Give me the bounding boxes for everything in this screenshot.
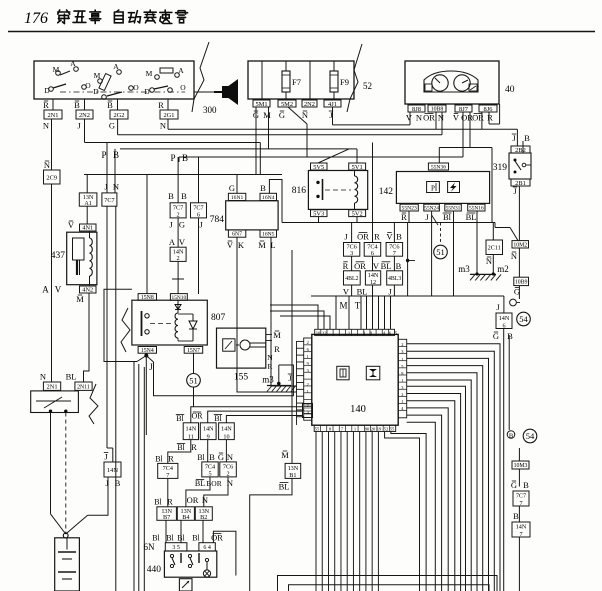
svg-text:319: 319 — [493, 163, 508, 173]
svg-text:BL: BL — [357, 287, 368, 297]
svg-text:4BL3: 4BL3 — [388, 276, 401, 282]
svg-text:B: B — [513, 511, 519, 521]
connector 7C7 left — [102, 193, 117, 206]
svg-text:M: M — [273, 330, 281, 340]
connector 4J1 — [324, 100, 341, 108]
svg-text:10: 10 — [316, 330, 321, 335]
svg-text:10M3: 10M3 — [514, 463, 528, 469]
svg-text:M: M — [263, 110, 271, 120]
svg-text:J: J — [149, 362, 153, 372]
labels over 13N group — [154, 495, 208, 507]
wires M T drop — [349, 296, 361, 329]
label P B pair 1 — [101, 150, 119, 160]
svg-text:142: 142 — [379, 187, 394, 197]
label B over 2G2 — [107, 100, 113, 110]
svg-text:437: 437 — [51, 251, 66, 261]
connector 15N10 — [170, 294, 187, 301]
svg-text:1: 1 — [307, 389, 309, 394]
svg-text:90: 90 — [365, 426, 370, 431]
svg-text:7: 7 — [519, 531, 522, 538]
svg-text:D: D — [93, 87, 99, 96]
ground m3 with J — [262, 365, 296, 392]
svg-text:R: R — [274, 344, 280, 354]
header rule — [8, 31, 595, 33]
svg-text:4N2: 4N2 — [82, 287, 93, 294]
connector 13N-B2 — [195, 507, 212, 521]
fuse F7 — [282, 71, 301, 92]
label R over 2N1 — [43, 100, 49, 110]
ECU 140 box with pin strips — [304, 329, 407, 431]
connector 13N-B7 — [157, 507, 177, 521]
svg-text:12: 12 — [322, 330, 327, 335]
break mark lower left — [89, 384, 98, 424]
svg-text:1: 1 — [401, 399, 403, 404]
labels over stack row1 — [344, 232, 402, 242]
svg-text:G: G — [493, 331, 499, 341]
svg-text:G: G — [279, 110, 285, 120]
connector 7C6-3 — [344, 243, 360, 258]
wire 14N-6 drop — [503, 329, 505, 591]
svg-text:7: 7 — [519, 500, 522, 507]
svg-text:5V5: 5V5 — [313, 164, 324, 171]
wire OR loop to 440 — [213, 531, 236, 575]
connector 5M2 — [278, 100, 296, 108]
svg-text:R: R — [158, 100, 164, 110]
wire 10M2 chain — [518, 248, 520, 277]
circled number 51 left — [187, 374, 201, 388]
svg-text:B: B — [396, 232, 402, 242]
label BL under 13N-B1 — [279, 482, 290, 492]
wire feeds stack row1 — [352, 143, 395, 243]
wire 15N4 junction Y — [137, 353, 154, 435]
wire 13N-B1 drop — [250, 478, 292, 591]
svg-text:B: B — [113, 150, 119, 160]
wire 300 to diagnostic plug — [194, 91, 221, 93]
wire stub 2G2 — [117, 99, 119, 110]
connector 7C7-6 — [191, 203, 207, 219]
svg-text:N: N — [438, 113, 444, 123]
svg-text:10M2: 10M2 — [513, 242, 527, 248]
switch unit 440 lamp — [203, 570, 210, 577]
wire 15N8 riser — [146, 175, 148, 294]
svg-text:2B1: 2B1 — [515, 180, 526, 187]
svg-text:D: D — [144, 87, 150, 96]
labels over 7C4-7 — [155, 454, 174, 464]
svg-text:B: B — [74, 100, 80, 110]
svg-text:Bl: Bl — [192, 534, 200, 543]
solenoid 437 plunger — [73, 238, 85, 275]
battery — [55, 538, 80, 591]
connector 7C4-7 — [158, 463, 178, 479]
label J under 2N2 — [77, 121, 81, 131]
svg-text:7: 7 — [393, 250, 396, 257]
svg-text:155: 155 — [234, 373, 249, 383]
labels A V over 14N-2 — [169, 237, 186, 247]
connector 2N2 of 52 — [302, 100, 317, 108]
lamp symbol B right — [507, 431, 515, 440]
svg-text:V: V — [55, 285, 62, 295]
connector 2N11 lower — [75, 382, 92, 390]
connector 2B2 — [511, 146, 530, 154]
wire 55N23 drop — [408, 211, 410, 223]
svg-text:7C7: 7C7 — [193, 205, 203, 212]
svg-text:2C9: 2C9 — [46, 174, 57, 181]
svg-text:N: N — [486, 256, 492, 266]
svg-text:OR: OR — [191, 412, 203, 421]
svg-text:R: R — [168, 454, 174, 464]
svg-text:B2: B2 — [200, 514, 207, 521]
connector 4BL3 — [387, 271, 403, 285]
connector 14N-7 — [512, 522, 530, 538]
label J under 15N4 — [149, 362, 153, 372]
svg-text:55N23: 55N23 — [402, 206, 417, 212]
circled number 51 right — [434, 245, 448, 259]
svg-text:O: O — [180, 83, 186, 92]
svg-text:6N7: 6N7 — [232, 232, 242, 238]
connector 2N2 — [76, 110, 93, 119]
wire bus H (main horizontal) — [282, 223, 510, 228]
connector 10M2 — [511, 241, 529, 261]
wire dashed to circled51 — [440, 223, 442, 244]
svg-text:V: V — [227, 240, 234, 250]
wire 5M2 diagonal — [288, 107, 307, 157]
svg-text:807: 807 — [211, 313, 226, 323]
connector 13N-B4 — [177, 507, 194, 521]
svg-text:6: 6 — [197, 212, 200, 219]
wire 807 left loop — [104, 289, 137, 361]
svg-text:O: O — [85, 81, 91, 90]
svg-text:V: V — [343, 287, 350, 297]
lamp symbol right top — [510, 299, 520, 306]
svg-text:OR: OR — [423, 113, 435, 123]
wire 140 bottom bend a — [385, 432, 420, 591]
fuse box 52 outline — [248, 61, 354, 99]
wire 10M2 diagonal — [510, 228, 518, 241]
svg-text:14N: 14N — [186, 425, 197, 432]
wire dashed to battery — [65, 413, 67, 535]
connector 14N-12 — [365, 271, 380, 286]
svg-text:7C6: 7C6 — [223, 464, 233, 471]
svg-text:Bl: Bl — [443, 212, 452, 222]
svg-text:A: A — [178, 66, 184, 75]
svg-text:N: N — [302, 110, 308, 120]
connector 7C6-7 — [386, 243, 403, 258]
wire 7C6-2 drop — [204, 477, 228, 507]
svg-text:m2: m2 — [497, 264, 509, 274]
svg-text:55N36: 55N36 — [431, 165, 446, 171]
svg-text:F9: F9 — [340, 77, 349, 87]
break mark at 300 — [192, 42, 217, 115]
relay 807 contact — [142, 311, 172, 336]
svg-text:5V3: 5V3 — [313, 211, 324, 218]
wire stub 2N1 — [52, 99, 54, 110]
connector 4N1 — [80, 224, 97, 232]
svg-text:B: B — [523, 480, 529, 490]
wire triple h2 — [208, 411, 303, 423]
svg-text:M: M — [258, 240, 266, 250]
junction dots lower switch — [49, 410, 68, 413]
wire bus E — [120, 107, 349, 163]
svg-text:B: B — [209, 452, 215, 462]
labels A V left — [42, 285, 62, 295]
svg-text:2C11: 2C11 — [488, 244, 501, 251]
svg-text:V: V — [453, 113, 460, 123]
switch unit 440 connector strip — [165, 543, 215, 551]
wires stack mid — [352, 256, 395, 271]
svg-text:52: 52 — [363, 81, 372, 91]
svg-text:O: O — [133, 83, 139, 92]
svg-text:6: 6 — [371, 250, 374, 257]
labels J N over 7C7 — [104, 182, 119, 192]
svg-text:14N: 14N — [499, 315, 510, 322]
svg-text:7C4: 7C4 — [163, 465, 173, 472]
connector 2C11 — [486, 240, 503, 266]
wire battery diagonals — [51, 514, 88, 538]
connector 5V3 — [311, 210, 328, 218]
svg-text:16N1: 16N1 — [231, 195, 244, 201]
svg-text:B: B — [260, 183, 266, 193]
svg-text:15N4: 15N4 — [141, 348, 154, 354]
svg-text:55: 55 — [390, 426, 395, 431]
wire 14N-10 drop — [225, 440, 227, 462]
connector 7C4-6 — [364, 243, 381, 258]
labels G B under 14N-6 — [493, 331, 513, 341]
svg-text:2: 2 — [401, 392, 403, 397]
wires left feeds to 140 top — [270, 305, 330, 329]
svg-text:M: M — [94, 71, 101, 80]
connector 14N lower-left — [104, 462, 121, 477]
wire 55N16 drop to ground — [476, 211, 478, 274]
wire 16N5 drop — [271, 237, 297, 386]
wire 55N24 drop — [432, 211, 438, 296]
svg-text:40: 40 — [505, 85, 515, 95]
relay 807 box — [132, 300, 226, 345]
svg-text:Bl: Bl — [177, 443, 185, 452]
svg-text:N: N — [113, 182, 119, 192]
svg-text:G: G — [511, 480, 517, 490]
labels under 784 — [227, 240, 276, 250]
wire stub 2G1 — [167, 99, 169, 110]
svg-text:14N: 14N — [516, 524, 527, 531]
wire bus G long — [84, 174, 282, 176]
svg-text:2: 2 — [307, 340, 309, 345]
svg-text:16N5: 16N5 — [262, 232, 275, 238]
svg-text:1: 1 — [307, 354, 309, 359]
connector 2G1 — [160, 110, 178, 119]
pin numbers 140 top — [316, 330, 398, 335]
wire 5V3 drop — [318, 217, 320, 223]
control unit 142 box — [379, 172, 490, 204]
svg-text:440: 440 — [147, 565, 162, 575]
sensor 155 box — [217, 328, 266, 382]
svg-text:4N1: 4N1 — [82, 225, 93, 232]
wire 15N10 chain feed — [177, 157, 179, 203]
svg-text:A: A — [113, 62, 119, 71]
svg-text:G: G — [229, 183, 235, 193]
wire bus B — [168, 112, 517, 146]
relay 816 contact — [316, 179, 351, 200]
svg-text:6 4: 6 4 — [203, 545, 211, 551]
label P B pair 2 — [170, 153, 188, 163]
svg-text:V: V — [373, 261, 380, 271]
circled number 54 bottom — [523, 429, 537, 443]
svg-text:15N7: 15N7 — [187, 348, 200, 354]
connector 6N7 — [228, 230, 245, 238]
svg-text:B: B — [396, 261, 402, 271]
svg-text:BL: BL — [195, 479, 205, 488]
wire 13NA1 riser — [86, 175, 88, 193]
wire 14N-2 drop with tick — [172, 261, 184, 293]
svg-text:14N: 14N — [107, 467, 118, 474]
label N under 2G1 — [160, 121, 166, 131]
svg-text:2: 2 — [177, 255, 180, 262]
svg-text:14N: 14N — [203, 425, 214, 432]
label M under 4N2 — [76, 294, 84, 304]
svg-text:BL: BL — [381, 261, 392, 271]
labels J B under 14N lower-left — [105, 478, 120, 488]
chapter title 第五章 自动变速器 (hand strokes) — [58, 10, 188, 24]
svg-text:Bl: Bl — [166, 534, 174, 543]
svg-text:2N1: 2N1 — [47, 112, 58, 119]
svg-text:B: B — [168, 191, 174, 201]
diagnostic plug icon (black) — [214, 79, 238, 105]
wire 4N1 feed — [86, 206, 88, 224]
connector 2G2 — [110, 110, 128, 119]
break mark left of 807 — [121, 308, 130, 352]
svg-text:54: 54 — [526, 431, 535, 441]
label B over 2N2 — [74, 100, 80, 110]
wire 5V1 riser — [349, 149, 357, 163]
wire J long drop — [107, 206, 113, 462]
wires 140 bottom drops — [316, 432, 378, 591]
svg-text:7C7: 7C7 — [173, 205, 183, 212]
svg-text:7: 7 — [166, 472, 169, 479]
wire under 51 left — [193, 387, 195, 407]
wire 14N-11 drop — [168, 440, 191, 464]
component 300 selector switch box — [34, 59, 194, 99]
relay 807 diode top — [175, 305, 181, 310]
wire triple h1 — [191, 407, 303, 423]
label N under 2N1 — [43, 121, 49, 131]
svg-text:P: P — [101, 150, 106, 160]
wire 5V2 drop — [356, 217, 358, 223]
svg-text:B: B — [181, 191, 187, 201]
connector 55N24 — [424, 204, 440, 211]
wire 6N7 drop — [237, 237, 297, 392]
wire 16N1 riser — [236, 175, 238, 194]
svg-text:5M1: 5M1 — [255, 101, 267, 108]
svg-text:A: A — [42, 285, 49, 295]
icon gear selector in 142 — [427, 182, 440, 193]
wire 7C4-5 drop — [186, 477, 210, 507]
wire 7C7-7 drop — [518, 506, 520, 522]
svg-text:N: N — [43, 121, 49, 131]
svg-text:7C7: 7C7 — [516, 493, 526, 500]
svg-text:N: N — [227, 452, 233, 462]
connector 13N A1 — [79, 193, 97, 207]
svg-text:B: B — [507, 331, 513, 341]
connector 10B8 — [428, 105, 446, 113]
label J over 14N-6 — [496, 302, 500, 312]
wire fan from 140 right pins — [407, 344, 500, 591]
relay 816 box — [292, 171, 368, 210]
wire 7C7-2 drop — [177, 218, 179, 247]
svg-text:2N2: 2N2 — [79, 112, 90, 119]
svg-text:K: K — [238, 240, 245, 250]
icon spool in 140 — [366, 366, 380, 380]
wire 8J6 drops — [482, 104, 500, 129]
wire long vertical pair c — [143, 367, 145, 591]
wire stub 2N2 — [84, 99, 86, 110]
page number 176 — [24, 10, 48, 27]
connector 7C6-2 — [220, 462, 237, 478]
fuse F9 — [330, 71, 349, 92]
connector 55N36 — [428, 163, 448, 171]
instrument cluster 40 — [405, 61, 515, 104]
svg-text:R: R — [43, 100, 49, 110]
svg-text:3: 3 — [350, 250, 353, 257]
svg-text:52: 52 — [384, 426, 389, 431]
labels under stack — [343, 287, 392, 297]
wire bus D — [85, 119, 261, 175]
svg-text:51: 51 — [189, 375, 198, 385]
connector 14N-11 — [183, 423, 198, 441]
svg-text:m3: m3 — [262, 375, 274, 385]
sensor 155 icon square — [223, 339, 235, 351]
labels over 440 — [152, 533, 223, 543]
svg-text:6N: 6N — [144, 542, 156, 552]
svg-text:P: P — [170, 153, 175, 163]
svg-text:A: A — [70, 59, 76, 68]
svg-text:V: V — [179, 237, 186, 247]
wires stack drop — [352, 285, 395, 296]
svg-text:2: 2 — [227, 471, 230, 478]
pin numbers 140 bottom — [315, 426, 395, 431]
svg-text:300: 300 — [203, 105, 217, 115]
wire 2C11 riser — [492, 223, 494, 275]
labels G B under 10M3 — [511, 480, 529, 490]
break mark at 52 — [347, 44, 372, 112]
wire 7C7-6 drop — [198, 218, 200, 294]
wire 4N2 drop — [84, 293, 90, 382]
svg-text:T: T — [355, 301, 361, 311]
svg-text:784: 784 — [210, 215, 225, 225]
connector 7C7-7 — [513, 491, 529, 507]
connector 15N4 — [138, 347, 156, 354]
wire 55N36 riser — [439, 148, 492, 224]
connector 14N-10 — [219, 423, 235, 441]
connector 2N1 — [44, 110, 62, 119]
circled number 54 top — [517, 312, 531, 326]
labels B B over 7C7-2 — [168, 191, 187, 201]
svg-text:5: 5 — [208, 471, 211, 478]
svg-text:M: M — [146, 69, 153, 78]
svg-text:3 5: 3 5 — [172, 545, 180, 551]
connector 8J6 — [479, 105, 497, 113]
svg-text:13N: 13N — [288, 465, 299, 472]
labels under 14N group — [177, 442, 197, 452]
wires comb busI to 140 — [336, 296, 391, 329]
svg-text:B4: B4 — [182, 514, 189, 521]
svg-text:Bl: Bl — [176, 414, 184, 423]
label J under 2B1 — [513, 186, 518, 196]
wire bus A — [333, 107, 411, 125]
svg-text:BOR: BOR — [206, 479, 221, 488]
svg-text:Bl: Bl — [214, 414, 222, 423]
svg-text:P: P — [431, 185, 435, 193]
svg-text:OR: OR — [187, 495, 199, 505]
label R over 2G1 — [158, 100, 164, 110]
